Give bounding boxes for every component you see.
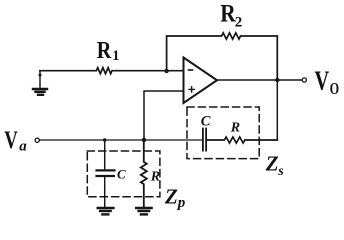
svg-text:V: V [315,67,330,96]
svg-text:a: a [19,139,27,155]
svg-text:2: 2 [235,15,243,31]
svg-text:Z: Z [265,152,279,176]
svg-text:1: 1 [112,48,119,64]
svg-text:p: p [176,195,186,211]
svg-text:C: C [201,114,211,130]
svg-text:R: R [230,121,240,136]
svg-text:R: R [150,169,160,184]
svg-text:C: C [117,166,126,181]
svg-text:O: O [330,80,340,98]
svg-text:R: R [97,37,112,64]
svg-text:Z: Z [164,184,178,208]
svg-text:V: V [4,126,18,154]
svg-text:s: s [277,164,284,179]
